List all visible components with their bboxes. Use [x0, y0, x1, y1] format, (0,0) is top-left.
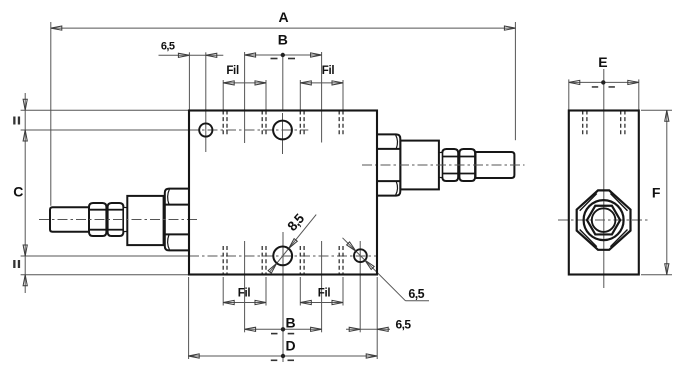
- main block outline: [189, 111, 377, 275]
- svg-text:Fil: Fil: [318, 288, 331, 300]
- arrow A right: [504, 26, 515, 30]
- top small hole: [199, 123, 212, 136]
- arrow 6,5 top outside-left: [178, 53, 189, 57]
- parallel mark bottom-left: [13, 260, 15, 268]
- dimension E line: [569, 81, 639, 83]
- dimension A right extension line: [514, 22, 516, 140]
- left fitting stem: [50, 207, 91, 231]
- svg-text:Fil: Fil: [238, 288, 251, 300]
- right fitting stem: [476, 152, 515, 178]
- centre dots: [281, 53, 606, 358]
- arrow F bottom: [665, 264, 669, 275]
- leader 6,5 diagonal: [343, 238, 406, 301]
- arrow left chain bottom-edge up: [23, 275, 27, 286]
- left fitting neck: [123, 208, 127, 232]
- eq marks D: [271, 360, 278, 362]
- svg-text:D: D: [285, 338, 295, 354]
- left fitting nut 2: [108, 203, 124, 236]
- bottom large hole: [273, 247, 292, 266]
- left fitting adapter body: [127, 196, 163, 245]
- leader 8,5: [270, 215, 317, 273]
- extension line side top edge right: [641, 109, 672, 111]
- extension line side bottom edge right: [641, 274, 672, 276]
- hidden port hole 4: [299, 246, 301, 275]
- svg-text:F: F: [652, 185, 661, 201]
- parallel mark top-left: [13, 117, 15, 125]
- dimension Fil bottom-right line: [300, 302, 343, 304]
- side view block fill: [569, 111, 639, 275]
- extension line hole4 centre down: [321, 241, 323, 332]
- side view block outline: [569, 111, 639, 275]
- leader 6,5 horizontal tail: [406, 300, 430, 302]
- extension line bottom edge to left: [21, 274, 189, 276]
- right fitting nut 1: [442, 149, 458, 181]
- hex socket inner circle: [592, 208, 616, 232]
- svg-text:B: B: [285, 315, 295, 331]
- dimension B top line: [245, 54, 322, 56]
- dot B top: [281, 53, 285, 57]
- svg-text:6,5: 6,5: [408, 287, 424, 301]
- svg-text:A: A: [279, 9, 289, 25]
- dimension 6,5 bottom line: [346, 328, 390, 330]
- arrows Fil bottom-right: [300, 300, 311, 304]
- arrow B top right: [311, 53, 322, 57]
- hidden thread lines (dashed): [223, 111, 625, 275]
- hex plug outer octagon: [577, 190, 631, 249]
- equality dashes: [13, 58, 615, 361]
- extension line small hole bottom centre: [359, 241, 361, 332]
- dimension Fil bottom-left line: [223, 302, 266, 304]
- extension line bottom row centreline left part: [21, 255, 189, 257]
- hex socket hexagon: [587, 206, 620, 235]
- arrows Fil top-left: [223, 81, 234, 85]
- arrows Fil bottom-left: [223, 300, 234, 304]
- left fitting: [50, 189, 190, 251]
- side view horizontal centreline: [558, 219, 649, 221]
- bottom small hole: [354, 249, 367, 262]
- extension line top edge to left: [21, 109, 189, 111]
- arrows Fil top-right: [300, 81, 311, 85]
- arrow F top: [665, 110, 669, 121]
- centrelines dash-dot: [189, 130, 649, 256]
- svg-text:6,5: 6,5: [396, 318, 412, 332]
- dot E: [601, 80, 605, 84]
- dimension A line: [51, 27, 516, 29]
- arrow A left: [51, 26, 62, 30]
- svg-text:B: B: [278, 32, 288, 48]
- arrow leader 8,5 lower: [268, 263, 277, 273]
- right fitting neck: [439, 153, 442, 178]
- hex plug chamfer circle: [584, 200, 624, 240]
- hidden port hole 3: [222, 246, 224, 275]
- hidden port hole 2: [299, 111, 301, 137]
- extension line hole1 centre: [244, 52, 246, 143]
- extension line hole2 centre: [321, 52, 323, 143]
- left fitting nut 1: [89, 203, 106, 236]
- top row centreline inside block: [189, 129, 308, 131]
- hidden holes side view pair 1: [582, 111, 584, 137]
- dimension Fil top-right line: [300, 82, 343, 84]
- arrow 6,5 top outside-right: [206, 53, 217, 57]
- svg-text:C: C: [13, 184, 23, 200]
- left chain vertical dimension line: [24, 93, 26, 293]
- centre mark vertical through B and D dots: [282, 232, 284, 362]
- hidden port hole 1: [222, 111, 224, 137]
- dimension D line: [188, 355, 377, 357]
- extension line block left edge top: [188, 52, 190, 110]
- svg-text:E: E: [598, 54, 607, 70]
- arrow left chain bottom-centre down: [23, 245, 27, 256]
- left fitting centreline: [39, 219, 200, 221]
- extension from B dot to block edge: [282, 57, 284, 111]
- right fitting centreline: [362, 164, 525, 166]
- extension line small hole top centre: [205, 52, 207, 152]
- arrows E: [569, 80, 580, 84]
- hidden holes side view pair 2: [620, 111, 622, 137]
- dimension B bottom line: [245, 328, 322, 330]
- side view vertical centreline: [603, 69, 605, 288]
- eq marks B bottom: [271, 333, 278, 335]
- right fitting hex boss: [377, 134, 400, 195]
- main block top view fill: [189, 111, 377, 275]
- fitting axis centrelines: [39, 165, 525, 220]
- svg-text:Fil: Fil: [322, 65, 335, 77]
- arrow leader 6,5 upper: [347, 242, 356, 251]
- dimension A left extension line: [50, 22, 52, 206]
- right fitting: [377, 134, 515, 195]
- right fitting adapter body: [400, 141, 439, 190]
- eq marks B top: [271, 58, 278, 60]
- arrows B bottom: [245, 327, 256, 331]
- arrow leader 8,5 upper: [289, 239, 298, 249]
- hex plug corner chamfer lines: [610, 194, 627, 211]
- svg-text:Fil: Fil: [226, 65, 239, 77]
- dimension 6,5 top line: [159, 54, 224, 56]
- extension line block right edge down: [376, 277, 378, 359]
- extension line top row centreline left part: [21, 129, 189, 131]
- dimension F line: [666, 110, 668, 274]
- right fitting nut 2: [459, 149, 475, 181]
- arrow left chain top-centre up: [23, 130, 27, 141]
- dot B bottom: [281, 327, 285, 331]
- dimension Fil top-left line: [223, 82, 266, 84]
- arrow left chain top-edge down: [23, 99, 27, 110]
- arrows 6,5 bottom outside: [349, 327, 360, 331]
- svg-text:6,5: 6,5: [161, 41, 175, 53]
- eq marks E: [592, 86, 598, 88]
- extension line block left edge down: [188, 277, 190, 359]
- top large hole: [273, 121, 292, 140]
- bottom row centreline inside block: [189, 255, 377, 257]
- dot D: [281, 354, 285, 358]
- arrows D: [188, 354, 199, 358]
- left fitting hex boss: [165, 189, 190, 251]
- arrow leader 6,5 lower: [365, 260, 374, 269]
- arrow B top left: [245, 53, 256, 57]
- extension line hole3 centre down: [244, 241, 246, 332]
- vertical centreline large top hole: [282, 113, 284, 154]
- side view hex plug: [577, 190, 631, 249]
